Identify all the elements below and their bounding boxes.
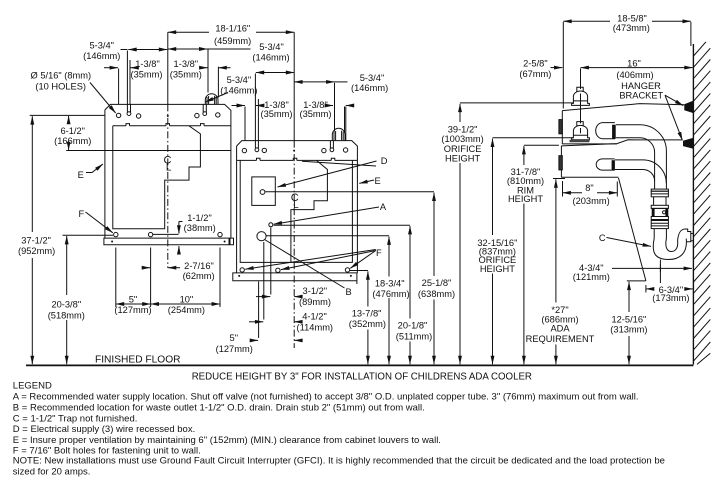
bubbler nozzle tip lower	[577, 122, 583, 127]
dimension 5-3/4in left panel slot to centerline	[121, 49, 128, 51]
svg-text:37-1/2": 37-1/2"	[21, 236, 51, 246]
bubbler dome lower	[572, 125, 590, 139]
svg-text:(518mm): (518mm)	[48, 311, 85, 321]
dimension 5in left holes	[116, 303, 151, 305]
svg-text:(511mm): (511mm)	[396, 331, 433, 341]
leader C to trap	[607, 238, 652, 247]
upper cooler unit top surface	[562, 104, 684, 111]
dimension 1-3/8in middle pair 1	[232, 105, 245, 107]
pipe mid section	[654, 197, 666, 206]
dimension 5-3/4in centerline to arch (label right)	[168, 48, 208, 50]
dimension 20-3/8in bolt row height	[63, 234, 114, 236]
leader F left	[86, 212, 113, 233]
upper unit push button	[559, 120, 562, 134]
middle panel hanger arch with bolts	[332, 128, 345, 140]
svg-text:HEIGHT: HEIGHT	[445, 153, 480, 163]
svg-text:5": 5"	[129, 295, 137, 305]
svg-text:(38mm): (38mm)	[184, 223, 216, 233]
svg-text:18-3/4": 18-3/4"	[375, 278, 405, 288]
dimension 12-5/16 drain height	[627, 280, 646, 282]
svg-text:5": 5"	[230, 333, 238, 343]
extension lines below middle strip	[259, 228, 271, 339]
bubbler nozzle tip upper	[577, 87, 583, 92]
trap outlet horn to wall	[678, 229, 691, 242]
pipe union band 3	[651, 217, 668, 220]
svg-text:A = Recommended water supply l: A = Recommended water supply location. S…	[13, 391, 639, 402]
middle panel inner liner rectangle	[240, 160, 352, 262]
svg-text:1-3/8": 1-3/8"	[135, 59, 160, 69]
upper drain pipe and elbow	[616, 125, 667, 189]
leader from 5-3/4 label3 to arch bolt	[205, 93, 228, 103]
upper drain receptor	[596, 123, 615, 139]
left panel keyhole slot 2	[203, 104, 206, 112]
dimension 18-5/8in overall depth	[563, 20, 610, 22]
dimension 16in bubbler to wall	[581, 67, 693, 69]
svg-text:E: E	[375, 176, 381, 186]
left panel inner stepped contour	[113, 126, 201, 229]
upper receptor flange	[612, 125, 616, 139]
dimension 3-1/2in A to centerline	[256, 296, 270, 298]
svg-text:D: D	[381, 156, 388, 166]
svg-text:18-5/8": 18-5/8"	[617, 14, 647, 24]
svg-text:L: L	[293, 200, 299, 211]
middle panel keyhole slot 2	[330, 141, 333, 149]
svg-text:1-1/2": 1-1/2"	[187, 213, 212, 223]
svg-text:E = Insure proper ventilation: E = Insure proper ventilation by maintai…	[13, 435, 441, 446]
svg-text:(146mm): (146mm)	[252, 52, 289, 62]
bubbler dome upper	[572, 91, 590, 105]
svg-text:(10 HOLES): (10 HOLES)	[35, 81, 86, 91]
svg-text:2-7/16": 2-7/16"	[184, 261, 214, 271]
svg-text:5-3/4": 5-3/4"	[259, 42, 284, 52]
bubbler centerline extension	[580, 69, 582, 134]
svg-text:39-1/2": 39-1/2"	[448, 124, 478, 134]
svg-text:(35mm): (35mm)	[299, 109, 331, 119]
dimension 25-1/8in	[433, 193, 435, 276]
svg-text:5-3/4": 5-3/4"	[360, 73, 385, 83]
union nut with dark sides	[652, 208, 668, 216]
svg-text:(638mm): (638mm)	[418, 289, 455, 299]
leader for 10-holes note	[90, 83, 116, 114]
leader E right	[359, 180, 374, 183]
svg-text:5-3/4": 5-3/4"	[89, 41, 114, 51]
svg-text:LEGEND: LEGEND	[13, 381, 52, 392]
extension line from A for 20-1/8	[274, 224, 410, 226]
svg-text:REDUCE HEIGHT BY 3" FOR INSTAL: REDUCE HEIGHT BY 3" FOR INSTALLATION OF …	[192, 372, 532, 383]
dimension 39-1/2 orifice height	[460, 102, 573, 104]
dimension 31-7/8 rim height	[524, 144, 559, 146]
dimension 32-15/16 orifice height	[493, 137, 574, 139]
svg-text:REQUIREMENT: REQUIREMENT	[526, 334, 595, 344]
leaders hanger bracket	[665, 95, 683, 105]
svg-text:(35mm): (35mm)	[170, 70, 202, 80]
dimension 8in unit depth	[563, 181, 618, 197]
hanger bracket wedge lower	[683, 138, 693, 149]
svg-text:13-7/8": 13-7/8"	[352, 308, 382, 318]
middle hanger panel outline	[237, 141, 358, 273]
svg-text:18-1/16": 18-1/16"	[215, 24, 250, 34]
left panel hanger arch with bolts	[205, 94, 218, 105]
lower drain pipe and elbow	[615, 160, 666, 183]
corner projection diagonal	[619, 178, 646, 281]
dimension 20-1/8in	[409, 226, 411, 319]
extension line from F holes for 13-7/8	[350, 270, 368, 272]
svg-text:(166mm): (166mm)	[54, 136, 91, 146]
pipe union band 1	[651, 189, 668, 191]
svg-text:HEIGHT: HEIGHT	[480, 264, 515, 274]
dimension 1-3/8in left pair	[104, 67, 118, 69]
extension lines bottom holes left panel	[116, 248, 220, 308]
svg-text:BRACKET: BRACKET	[619, 91, 663, 101]
svg-text:F: F	[78, 209, 84, 219]
dimension 2-5/8in bubbler setback	[551, 67, 563, 69]
svg-text:(352mm): (352mm)	[349, 319, 386, 329]
svg-text:6-1/2": 6-1/2"	[60, 126, 85, 136]
svg-text:20-1/8": 20-1/8"	[398, 321, 428, 331]
extension line from B for 18-3/4	[266, 235, 389, 237]
upper unit bottom	[562, 143, 617, 145]
svg-text:(203mm): (203mm)	[572, 196, 609, 206]
drain centerline below trap	[659, 260, 661, 283]
trap inlet	[654, 229, 666, 239]
left panel top strip holes	[116, 113, 120, 117]
svg-text:(35mm): (35mm)	[130, 70, 162, 80]
middle panel keyhole slot 1	[255, 141, 258, 149]
svg-text:10": 10"	[180, 295, 194, 305]
hanger bracket wedge upper	[684, 101, 693, 114]
svg-text:(476mm): (476mm)	[372, 289, 409, 299]
left panel bottom mounting strip	[104, 238, 234, 245]
dimension 4-1/2in B to centerline	[249, 321, 263, 323]
dimension *27 ADA requirement	[553, 178, 565, 180]
svg-text:L: L	[166, 163, 172, 174]
dimension 2-7/16in hole to centerline	[143, 267, 150, 269]
left strip rivet dots	[111, 241, 113, 243]
electrical box D	[252, 177, 275, 206]
outlet nipple to wall	[691, 234, 694, 241]
svg-text:(67mm): (67mm)	[519, 69, 551, 79]
lower unit top and back ledge to bracket	[561, 140, 682, 146]
svg-text:(1003mm): (1003mm)	[441, 134, 483, 144]
P-trap body	[653, 239, 686, 260]
svg-text:(114mm): (114mm)	[297, 322, 334, 332]
left panel bottom bolt holes F	[114, 232, 118, 236]
dimension 6-1/2in hole row offset	[66, 150, 231, 152]
lower unit push button	[559, 156, 562, 170]
dimension 6-3/4	[645, 285, 647, 293]
svg-text:(146mm): (146mm)	[220, 85, 257, 95]
svg-text:FINISHED FLOOR: FINISHED FLOOR	[95, 355, 180, 366]
svg-text:NOTE: New installations must u: NOTE: New installations must use Ground …	[13, 456, 665, 467]
svg-text:E: E	[78, 170, 84, 180]
svg-text:(146mm): (146mm)	[351, 83, 388, 93]
middle panel centerline	[293, 32, 295, 140]
svg-text:16": 16"	[627, 59, 641, 69]
upper unit front face	[561, 111, 563, 144]
finished floor line	[26, 364, 693, 366]
svg-text:(254mm): (254mm)	[168, 305, 205, 315]
svg-text:sized for 20 amps.: sized for 20 amps.	[13, 467, 91, 478]
svg-text:(459mm): (459mm)	[214, 36, 251, 46]
dimension 5-3/4in middle centerline to arch (label right)	[294, 81, 334, 83]
left hanger panel outline	[105, 104, 231, 238]
svg-text:D = Electrical supply (3) wire: D = Electrical supply (3) wire recessed …	[13, 424, 195, 435]
dimension 5-3/4in middle slot to centerline	[256, 72, 294, 74]
svg-text:ADA: ADA	[550, 324, 570, 334]
dimension 4-3/4 trap to wall	[612, 265, 690, 273]
pipe coupling block 1	[651, 191, 668, 197]
middle panel top strip bottom edge with notches	[237, 158, 358, 160]
svg-text:*27": *27"	[551, 305, 568, 315]
dimension 1-3/8in left pair 2 at arch	[202, 67, 208, 69]
leaders F right to bolt holes	[245, 250, 376, 270]
svg-text:B = Recommended location for w: B = Recommended location for waste outle…	[13, 403, 425, 414]
svg-text:(121mm): (121mm)	[573, 272, 610, 282]
svg-text:(35mm): (35mm)	[260, 109, 292, 119]
dimension 1-3/8in middle pair 2	[330, 105, 334, 107]
lower unit front face	[560, 146, 562, 177]
svg-text:(127mm): (127mm)	[216, 344, 253, 354]
svg-text:3-1/2": 3-1/2"	[303, 286, 328, 296]
middle panel top strip holes	[242, 148, 246, 152]
extension lines left arch	[208, 49, 218, 98]
svg-text:HANGER: HANGER	[621, 81, 661, 91]
extension lines middle arch bolts	[335, 83, 345, 133]
dimension 10in left holes	[151, 303, 220, 305]
pipe coupling block 2	[651, 221, 668, 229]
leader D to electrical box	[278, 161, 377, 187]
extension lines middle holes	[245, 107, 346, 141]
wall line	[692, 44, 694, 365]
pipe union band 2	[651, 205, 668, 208]
svg-text:(62mm): (62mm)	[183, 271, 215, 281]
middle panel bottom bolt holes F	[240, 268, 244, 272]
svg-text:(473mm): (473mm)	[613, 23, 650, 33]
svg-text:(146mm): (146mm)	[83, 51, 120, 61]
svg-text:C = 1-1/2" Trap not furnished.: C = 1-1/2" Trap not furnished.	[13, 414, 138, 425]
svg-text:C: C	[599, 233, 606, 243]
svg-text:2-5/8": 2-5/8"	[523, 58, 548, 68]
svg-text:(313mm): (313mm)	[610, 325, 647, 335]
lower unit bottom	[561, 176, 618, 178]
dimension 18-1/16in between panel centerlines	[168, 31, 209, 33]
middle panel bottom mounting strip	[233, 273, 357, 284]
extension lines left slot1	[127, 51, 130, 105]
water supply hole A	[269, 223, 273, 227]
svg-text:(173mm): (173mm)	[652, 293, 689, 303]
svg-text:B: B	[346, 287, 352, 297]
svg-text:HEIGHT: HEIGHT	[508, 194, 543, 204]
extension line from D box for 25-1/8	[265, 191, 434, 193]
dimension 18-3/4in	[388, 237, 390, 277]
leader B from waste circle	[265, 240, 345, 289]
wall hatching	[694, 42, 711, 365]
svg-text:(406mm): (406mm)	[616, 70, 653, 80]
leader A to supply hole	[274, 207, 379, 224]
svg-text:1-3/8": 1-3/8"	[174, 59, 199, 69]
lower drain receptor	[596, 159, 615, 170]
dimension 37-1/2in overall height	[30, 114, 105, 116]
svg-text:Ø 5/16" (8mm): Ø 5/16" (8mm)	[31, 71, 92, 81]
svg-text:12-5/16": 12-5/16"	[611, 314, 646, 324]
svg-text:5-3/4": 5-3/4"	[227, 75, 252, 85]
middle panel inner stepped duct contour	[291, 160, 328, 262]
lower receptor flange	[612, 160, 615, 170]
left panel keyhole slot 1	[127, 104, 130, 112]
left panel top strip bottom edge with notches	[113, 124, 231, 126]
dimension 5in waste to centerline	[252, 339, 259, 341]
svg-text:20-3/8": 20-3/8"	[51, 300, 81, 310]
left panel centerline	[167, 32, 169, 104]
extension lines middle slot1	[255, 74, 258, 141]
leader E left	[86, 165, 102, 173]
svg-text:F: F	[376, 248, 382, 258]
svg-text:4-1/2": 4-1/2"	[302, 311, 327, 321]
extension line left hole1	[118, 69, 120, 105]
dimension 1-1/2in strip offset	[153, 233, 179, 235]
svg-text:(89mm): (89mm)	[299, 297, 331, 307]
svg-text:(952mm): (952mm)	[18, 246, 55, 256]
svg-text:(127mm): (127mm)	[114, 305, 151, 315]
dimension 13-7/8in	[367, 271, 369, 306]
waste outlet circle B	[257, 232, 266, 241]
leader D to strip knockout	[302, 161, 376, 166]
svg-text:8": 8"	[585, 183, 593, 193]
svg-text:A: A	[380, 202, 387, 212]
svg-text:25-1/8": 25-1/8"	[422, 278, 452, 288]
lower dome collar	[570, 140, 590, 143]
